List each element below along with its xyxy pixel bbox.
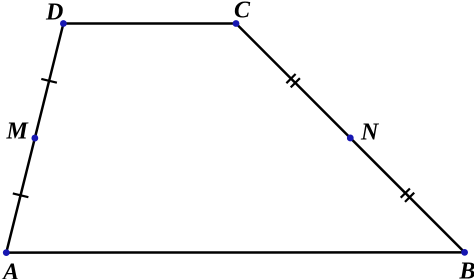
side DC (top) [63, 22, 236, 25]
point A (dot) [3, 249, 10, 256]
point D (dot) [60, 20, 67, 27]
point B (dot) [461, 249, 468, 256]
svg-text:M: M [6, 118, 30, 144]
side AB (bottom) [6, 251, 464, 254]
point M (dot, midpoint of AD) [31, 135, 38, 142]
svg-text:D: D [45, 0, 63, 26]
point C (dot) [233, 20, 240, 27]
double tick mark on CN [286, 74, 300, 87]
side CB (right leg) [236, 24, 465, 253]
svg-text:N: N [360, 119, 380, 145]
point N (dot, midpoint of CB) [347, 135, 354, 142]
double tick mark on NB [401, 189, 415, 202]
side AD (left leg) [6, 24, 63, 253]
tick mark on DM [41, 79, 57, 83]
svg-text:A: A [1, 259, 19, 279]
svg-text:C: C [234, 0, 251, 23]
tick mark on MA [13, 193, 29, 197]
svg-text:B: B [459, 258, 474, 279]
